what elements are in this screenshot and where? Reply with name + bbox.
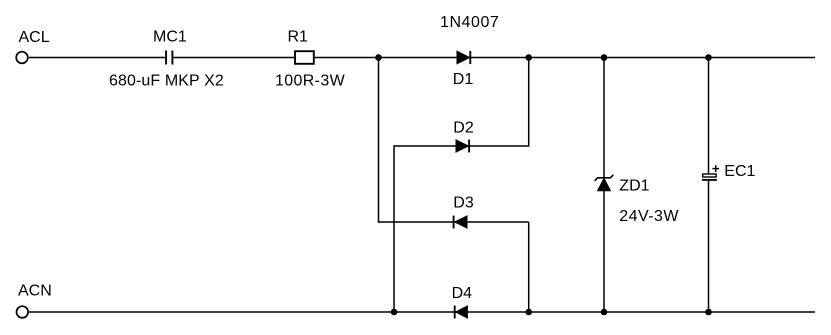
wire D2 row horizontal <box>394 146 529 312</box>
wire vertical from top right node down to D2 row <box>528 58 530 147</box>
node at top of EC1 <box>705 54 712 61</box>
zener diode ZD1 <box>595 175 614 191</box>
node bottom of EC1 <box>705 309 712 316</box>
node at top of ZD1 <box>601 54 608 61</box>
terminal ACL <box>16 52 28 64</box>
wire D3 row horizontal <box>379 221 529 223</box>
node at top of right bridge leg <box>525 54 532 61</box>
diode D2 <box>456 140 469 153</box>
svg-text:680-uF MKP X2: 680-uF MKP X2 <box>109 73 224 90</box>
svg-text:D3: D3 <box>453 195 474 212</box>
terminal ACN <box>17 306 29 318</box>
diode D3 <box>454 216 467 229</box>
svg-text:100R-3W: 100R-3W <box>275 73 346 90</box>
svg-text:D2: D2 <box>453 120 474 137</box>
wire vertical ZD1 lower <box>603 191 605 312</box>
node at top of left bridge leg <box>375 54 382 61</box>
svg-text:D1: D1 <box>453 71 474 88</box>
svg-text:R1: R1 <box>288 29 309 46</box>
capacitor EC1 <box>702 165 719 180</box>
svg-text:ZD1: ZD1 <box>619 178 649 195</box>
wire bottom rail <box>29 311 815 313</box>
node bottom of ZD1 <box>601 309 608 316</box>
node bottom of inner bridge leg <box>391 309 398 316</box>
capacitor MC1 <box>166 51 172 65</box>
node bottom of right bridge leg <box>525 309 532 316</box>
wire top: terminal to MC1 <box>29 57 166 59</box>
svg-text:EC1: EC1 <box>724 163 755 180</box>
diode D1 <box>457 51 470 64</box>
svg-text:24V-3W: 24V-3W <box>619 208 679 225</box>
wire vertical EC1 lower <box>708 181 710 312</box>
diode D4 <box>455 306 468 319</box>
svg-text:ACN: ACN <box>18 282 52 299</box>
wire vertical from D3 row down to bottom rail <box>528 222 530 312</box>
wire vertical ZD1 upper <box>603 58 605 179</box>
svg-text:1N4007: 1N4007 <box>440 14 499 31</box>
wire top: MC1 to R1 <box>173 57 295 59</box>
resistor R1 <box>295 51 314 64</box>
wire vertical from top node down to D3 row <box>378 58 380 223</box>
wire vertical EC1 upper <box>708 58 710 175</box>
svg-text:D4: D4 <box>452 285 473 302</box>
svg-text:ACL: ACL <box>19 29 50 46</box>
wire top: R1 to right end <box>314 57 815 59</box>
svg-text:MC1: MC1 <box>153 29 187 46</box>
